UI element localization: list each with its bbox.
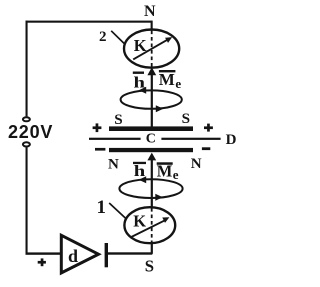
- meter K2 body: [124, 29, 179, 67]
- svg-text:K: K: [134, 36, 147, 55]
- arrow h/Me lower head: [147, 153, 156, 161]
- plus sign right of top plate: [204, 126, 213, 129]
- current loop upper right arrowhead: [156, 105, 164, 112]
- svg-text:N: N: [108, 156, 119, 172]
- pointer line for label 2: [111, 31, 125, 45]
- wire left vertical upper: [26, 21, 28, 117]
- svg-text:C: C: [146, 131, 156, 146]
- wire bottom horizontal to diode: [26, 252, 61, 254]
- meter K1 dashed axis: [151, 208, 153, 244]
- svg-text:h: h: [134, 163, 146, 180]
- svg-text:N: N: [191, 156, 202, 172]
- minus sign right below dielectric: [202, 147, 210, 150]
- svg-text:S: S: [114, 112, 122, 128]
- svg-text:h: h: [134, 74, 146, 91]
- svg-text:e: e: [173, 167, 179, 182]
- svg-text:S: S: [145, 257, 154, 276]
- svg-text:N: N: [144, 3, 156, 20]
- diode cathode bar: [105, 243, 108, 267]
- meter K2 dashed axis: [151, 31, 153, 68]
- meter K2 needle: [133, 40, 167, 60]
- current loop upper left arrowhead: [139, 87, 147, 94]
- wire riser into meter 1 bottom: [151, 244, 153, 254]
- plus sign at diode input: [38, 261, 46, 264]
- diode d triangle: [61, 235, 98, 273]
- svg-text:M: M: [157, 162, 173, 181]
- hbar label upper bar: [133, 72, 144, 74]
- hbar label lower bar: [133, 162, 146, 164]
- svg-text:2: 2: [99, 29, 107, 45]
- current loop upper: [121, 90, 182, 108]
- current loop lower left arrowhead: [139, 176, 147, 183]
- pointer line for label 1: [109, 203, 127, 219]
- wire diode cathode to meter 1: [106, 252, 152, 254]
- capacitor top plate S: [109, 126, 193, 131]
- supply terminal lower: [23, 142, 30, 146]
- plus sign left of top plate: [93, 126, 102, 129]
- svg-text:d: d: [68, 246, 78, 266]
- capacitor bottom plate N: [109, 148, 193, 152]
- arrow h/Me lower shaft: [151, 160, 153, 208]
- dielectric line right segment: [161, 138, 220, 140]
- current loop lower: [119, 179, 182, 198]
- meter K1 body: [124, 207, 175, 243]
- current loop lower right arrowhead: [155, 194, 163, 201]
- svg-text:220V: 220V: [8, 122, 53, 142]
- minus sign left below dielectric: [95, 148, 105, 151]
- svg-text:1: 1: [97, 197, 107, 218]
- Me label lower bar: [157, 162, 173, 165]
- svg-text:K: K: [133, 212, 146, 231]
- wire drop into meter 2: [151, 21, 153, 32]
- wire top horizontal: [26, 21, 152, 23]
- meter K1 needle: [130, 220, 165, 237]
- dielectric line left segment: [89, 138, 141, 140]
- arrow h/Me upper head: [147, 67, 156, 75]
- wire left vertical lower: [26, 147, 28, 254]
- svg-text:S: S: [182, 111, 190, 127]
- svg-text:D: D: [226, 132, 237, 148]
- svg-text:M: M: [159, 70, 175, 89]
- supply terminal upper: [23, 117, 30, 121]
- svg-text:e: e: [175, 76, 181, 91]
- Me label upper bar: [159, 70, 176, 72]
- arrow h/Me upper shaft: [151, 74, 153, 127]
